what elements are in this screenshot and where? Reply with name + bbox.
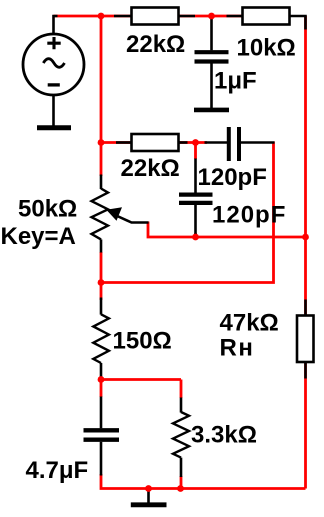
potentiometer wiper arm line — [115, 215, 149, 223]
node top-mid junction — [208, 13, 215, 20]
node row2-mid junction — [192, 139, 199, 146]
capacitor C2 120pF series plates — [229, 127, 239, 161]
node top-left junction — [98, 13, 105, 20]
svg-text:3.3kΩ: 3.3kΩ — [191, 422, 257, 449]
capacitor C4 4.7uF top lead — [100, 397, 103, 429]
svg-text:150Ω: 150Ω — [113, 328, 172, 355]
resistor R5 150 zigzag — [93, 314, 109, 363]
resistor R2 10k body — [243, 8, 290, 25]
wire left rail low: 150 ohm bottom node — [100, 376, 103, 397]
ground bar bottom center — [131, 502, 167, 507]
node wiper rail at right rail — [302, 234, 309, 241]
AC source plus sign — [47, 37, 60, 49]
capacitor C1 1uF top lead — [210, 17, 213, 50]
capacitor C3 120pF shunt bottom lead — [194, 205, 197, 234]
svg-text:Key=A: Key=A — [1, 223, 76, 250]
potentiometer wiper arrow head — [106, 207, 122, 221]
resistor R5 150 top lead — [100, 298, 103, 315]
potentiometer R4 50k top lead — [100, 175, 103, 190]
svg-text:1μF: 1μF — [214, 68, 257, 95]
node 150 ohm bottom junction — [98, 376, 105, 383]
capacitor C1 1uF bottom lead — [210, 64, 213, 109]
resistor R2 10k lead left — [227, 15, 244, 18]
resistor R7 3.3k zigzag — [173, 412, 189, 458]
resistor R5 150 bottom lead — [100, 363, 103, 377]
resistor R1 22k (top) lead left — [114, 15, 132, 18]
wire 120pF shunt cap bottom to wiper rail — [194, 233, 197, 237]
svg-text:4.7μF: 4.7μF — [26, 457, 89, 484]
AC source sine wave — [43, 59, 64, 68]
resistor R1 22k (top) lead right — [178, 15, 195, 18]
wire right rail: 10k right end down to bottom rail through Rn — [304, 16, 307, 489]
resistor R3 22k (row2) lead left — [116, 141, 132, 144]
node pot bottom junction — [98, 279, 105, 286]
resistor R2 10k lead right — [290, 16, 306, 30]
resistor R1 22k (top) body — [132, 8, 179, 25]
capacitor C3 120pF shunt plates — [179, 195, 213, 203]
AC source top lead — [54, 16, 58, 34]
node bottom rail at ground — [145, 485, 152, 492]
capacitor C3 120pF shunt top lead — [194, 159, 197, 194]
wire left rail mid: pot bottom to 150 ohm — [100, 252, 103, 300]
svg-text:50kΩ: 50kΩ — [18, 196, 77, 223]
wire link node to 3.3k top — [101, 380, 181, 399]
capacitor C4 4.7uF bottom lead — [100, 442, 103, 476]
ground stem bottom center — [147, 489, 150, 503]
resistor R6 Rn 47k bottom lead — [304, 362, 307, 379]
capacitor C2 120pF series left lead — [205, 141, 228, 144]
wire 3.3k bottom stub — [180, 476, 183, 489]
resistor R3 22k (row2) lead right — [178, 141, 188, 144]
node bottom rail at 3.3k — [177, 485, 184, 492]
wire series 120pF right down and across to pot bottom node — [101, 142, 274, 283]
svg-text:22kΩ: 22kΩ — [126, 31, 185, 58]
svg-text:10kΩ: 10kΩ — [237, 35, 296, 62]
svg-text:47kΩ: 47kΩ — [220, 310, 279, 337]
capacitor C4 4.7uF plates — [84, 430, 120, 439]
wire node B drop: row2 node to 120pF shunt cap — [194, 143, 197, 160]
node wiper rail at shunt cap — [192, 234, 199, 241]
wire wiper rail: wiper to right rail — [148, 222, 306, 238]
svg-text:22kΩ: 22kΩ — [121, 155, 180, 182]
potentiometer R4 50k bottom lead — [100, 239, 103, 252]
AC source V1 circle — [23, 34, 84, 95]
AC source bottom lead — [52, 95, 55, 126]
resistor R6 Rn 47k top lead — [304, 300, 307, 317]
resistor R7 3.3k top lead — [180, 398, 183, 413]
ground under 1uF — [194, 108, 229, 113]
svg-text:120pF: 120pF — [212, 202, 286, 229]
capacitor C1 1uF plates — [195, 52, 229, 61]
wire row2 net: left rail to 22k to cap — [101, 141, 207, 144]
AC source minus sign — [48, 83, 60, 86]
resistor R7 3.3k bottom lead — [180, 458, 183, 477]
wire left rail upper: top node down to potentiometer — [100, 16, 103, 176]
resistor R3 22k (row2) body — [132, 134, 179, 151]
resistor R6 Rn 47k body — [297, 316, 314, 363]
node row2-left junction — [98, 139, 105, 146]
ground under source — [37, 125, 71, 130]
capacitor C2 120pF series right lead — [241, 141, 275, 144]
wire top net: source to 22k to 10k — [54, 15, 244, 18]
wire bottom rail — [101, 474, 306, 489]
svg-text:Rн: Rн — [220, 335, 255, 362]
potentiometer R4 50k zigzag — [92, 189, 109, 240]
svg-text:120pF: 120pF — [198, 164, 267, 191]
